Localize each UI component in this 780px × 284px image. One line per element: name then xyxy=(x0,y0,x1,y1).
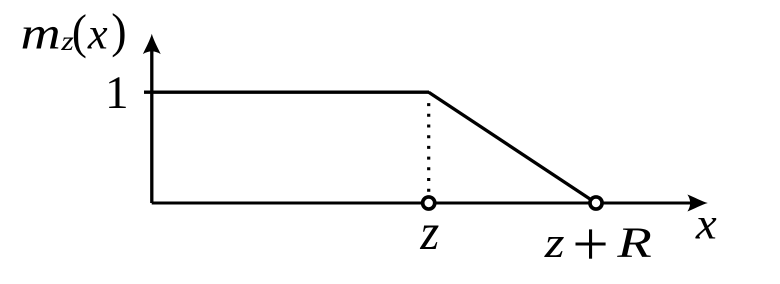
svg-text:z: z xyxy=(419,204,439,260)
svg-text:1: 1 xyxy=(105,67,129,119)
svg-text:): ) xyxy=(111,5,126,58)
svg-text:R: R xyxy=(616,218,652,266)
svg-text:x: x xyxy=(695,198,717,248)
svg-text:z: z xyxy=(544,220,565,267)
svg-text:m: m xyxy=(21,8,61,58)
svg-text:(: ( xyxy=(72,6,87,60)
svg-text:x: x xyxy=(87,8,108,58)
